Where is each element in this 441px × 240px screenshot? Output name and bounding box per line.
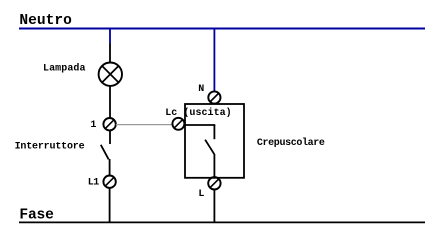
- terminal N slash: [210, 94, 218, 102]
- svg-text:L1: L1: [88, 177, 100, 188]
- svg-text:L: L: [198, 189, 204, 200]
- wire gray link terminal 1 to Lc: [116, 124, 173, 126]
- terminal N circle: [208, 91, 220, 103]
- svg-text:Lampada: Lampada: [43, 62, 86, 74]
- wire terminal 1 to switch: [109, 130, 111, 144]
- lamp symbol X stroke 2: [102, 66, 119, 83]
- svg-text:Interruttore: Interruttore: [15, 142, 85, 153]
- terminal L1 circle: [103, 176, 115, 188]
- wire inside box horizontal from Lc: [184, 124, 215, 126]
- svg-text:Crepuscolare: Crepuscolare: [257, 137, 325, 149]
- terminal Lc slash: [175, 120, 183, 128]
- terminal L circle: [208, 177, 220, 189]
- lamp symbol X stroke 1: [102, 66, 119, 83]
- lamp symbol circle: [99, 62, 122, 85]
- wire blade to terminal L1: [109, 159, 111, 176]
- switch blade Interruttore: [101, 145, 109, 160]
- wire terminal L to Fase: [213, 190, 215, 223]
- terminal 1 circle: [103, 118, 115, 130]
- terminal L1 slash: [106, 178, 114, 186]
- wire Fase bus (black horizontal): [19, 221, 425, 223]
- switch blade inside crepuscolare: [205, 140, 214, 155]
- crepuscolare box: [185, 104, 244, 178]
- svg-text:Neutro: Neutro: [19, 13, 72, 29]
- svg-text:N: N: [198, 84, 204, 95]
- wire Neutro bus (blue horizontal): [19, 28, 425, 30]
- terminal 1 slash: [106, 120, 114, 128]
- wire crepuscolare branch from Neutro (blue vertical): [213, 28, 215, 92]
- wire inside box vertical upper contact: [213, 125, 215, 139]
- wire lamp branch from Neutro (blue segment): [109, 28, 111, 44]
- wire lamp to terminal 1: [109, 86, 111, 118]
- terminal Lc circle: [172, 118, 184, 130]
- svg-text:Fase: Fase: [19, 207, 54, 223]
- wire terminal L1 to Fase: [109, 188, 111, 222]
- wire blade to terminal L: [213, 154, 215, 177]
- svg-text:Lc (uscita): Lc (uscita): [165, 107, 232, 119]
- terminal L slash: [210, 179, 218, 187]
- wire lamp branch upper (black segment): [109, 44, 111, 63]
- svg-text:1: 1: [90, 120, 96, 131]
